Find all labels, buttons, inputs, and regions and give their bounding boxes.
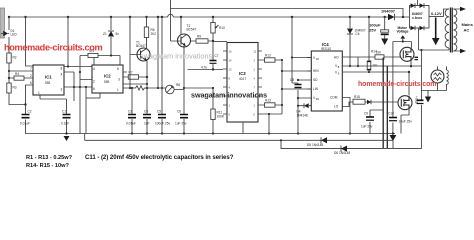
svg-text:0.1uF: 0.1uF (61, 122, 69, 126)
bridge rectifier box (410, 0, 430, 50)
wire bridge to transformer (429, 16, 444, 18)
svg-text:C6: C6 (177, 110, 181, 114)
resistor R12 (262, 53, 283, 62)
svg-text:6: 6 (93, 87, 95, 91)
load motor circle (431, 66, 444, 90)
svg-text:1N4148: 1N4148 (297, 114, 308, 118)
transformer (444, 7, 474, 53)
svg-text:4.7u: 4.7u (201, 66, 207, 70)
capacitor C7 (201, 41, 219, 71)
capacitor C10 (388, 110, 412, 135)
wire IC3 bottom to bus (243, 114, 282, 134)
svg-text:Z1: Z1 (103, 32, 107, 36)
svg-text:10c: 10c (372, 64, 378, 68)
svg-text:2: 2 (93, 80, 95, 84)
svg-text:R15: R15 (354, 95, 360, 99)
node dots on rail A (8, 16, 404, 18)
IC2 555 (92, 61, 147, 98)
resistor R3 (7, 83, 17, 93)
svg-text:R12: R12 (265, 53, 271, 57)
svg-text:swagatam innovations: swagatam innovations (140, 52, 213, 61)
svg-text:C10: C10 (388, 112, 394, 116)
svg-text:+C11: +C11 (415, 96, 419, 104)
svg-text:C4: C4 (144, 110, 148, 114)
svg-text:10uF 25v: 10uF 25v (399, 120, 413, 124)
wire dc bottom link (419, 50, 449, 66)
svg-text:0.01uF: 0.01uF (126, 122, 136, 126)
svg-text:R8: R8 (176, 83, 180, 87)
svg-text:8: 8 (117, 67, 119, 71)
capacitor C4 (143, 110, 151, 134)
resistor zigzag R (123, 86, 163, 90)
wire pin line y70.5 to IC3 (188, 69, 224, 71)
wire LO line gate R15 (347, 95, 399, 107)
resistor R13 (262, 98, 283, 107)
wire HO line (347, 50, 401, 60)
svg-text:homemade-circuits.com: homemade-circuits.com (4, 43, 103, 53)
svg-text:IR2110: IR2110 (321, 47, 331, 51)
svg-text:1N4007: 1N4007 (381, 9, 396, 14)
svg-text:-Ck: -Ck (355, 32, 360, 36)
capacitor C8 (290, 78, 302, 134)
svg-text:C8: C8 (290, 78, 294, 82)
dc arrow from 0-12V wire (432, 18, 440, 46)
wire x161 from rail (158, 17, 162, 114)
svg-text:LO: LO (334, 105, 339, 109)
svg-text:100uF 25v: 100uF 25v (155, 122, 170, 126)
svg-text:C1: C1 (62, 110, 66, 114)
IC4 IR2110 (307, 42, 347, 111)
wire Q1 source down (410, 61, 412, 66)
svg-text:R3: R3 (13, 86, 17, 90)
resistor R9 (191, 34, 214, 43)
wire Q2 source to bus (401, 109, 409, 133)
trimmer preset (162, 83, 184, 94)
diode on rail 1N4007 (381, 9, 396, 21)
svg-text:R9: R9 (197, 34, 201, 38)
capacitor C6 (175, 110, 188, 134)
svg-text:1: 1 (117, 88, 119, 92)
capacitor C1 (61, 99, 71, 134)
zener Z1 (103, 17, 119, 56)
svg-text:C11 - (2) 20mf 450v electrolyt: C11 - (2) 20mf 450v electrolytic capacit… (85, 154, 234, 161)
svg-text:5v: 5v (116, 32, 120, 36)
ground arrow right (389, 134, 396, 142)
wire mesh between IC1 and IC2 (64, 67, 92, 134)
wire vcc drop x292 (292, 17, 311, 83)
resistor R4 (9, 72, 29, 80)
svg-text:4017: 4017 (239, 77, 246, 81)
left edge terminal bar (0, 8, 5, 38)
wire COM down (347, 98, 351, 134)
svg-text:SD: SD (313, 78, 318, 82)
resistor R6 (144, 17, 156, 49)
svg-text:CC: CC (316, 59, 320, 61)
svg-text:25V: 25V (369, 28, 376, 33)
svg-text:2: 2 (30, 74, 32, 78)
wire T1 emitter down (146, 61, 148, 114)
svg-text:R14: R14 (371, 50, 377, 54)
wire rail B upper (171, 9, 404, 18)
svg-text:R14- R15 - 10w?: R14- R15 - 10w? (26, 163, 69, 169)
wire vertical from image top through hop (170, 0, 172, 41)
bridge diodes bottom (411, 26, 425, 31)
wire bottom bus A (26, 133, 396, 134)
svg-text:6: 6 (30, 81, 32, 85)
svg-text:COM: COM (330, 96, 338, 100)
resistor R11 (211, 109, 225, 134)
svg-text:SS: SS (316, 99, 320, 101)
wire T2 emitter down (183, 46, 185, 114)
svg-text:AC: AC (464, 28, 470, 33)
resistor R5 475 (79, 49, 120, 133)
node dot junction x9 y78 (8, 77, 10, 79)
wire IC1 pin7 to left rail (9, 70, 29, 72)
MOSFET Q1 (400, 47, 414, 61)
capacitor C9 (361, 110, 383, 134)
transistor T2 (171, 24, 197, 48)
wire top rail A (9, 16, 410, 18)
svg-text:R7: R7 (129, 70, 133, 74)
capacitor C11 (417, 100, 424, 103)
bridge diodes top (411, 3, 425, 8)
svg-text:100K: 100K (217, 114, 225, 118)
Q1 gate cap mark (415, 57, 419, 59)
IC1 555 (29, 65, 64, 99)
svg-text:C9: C9 (364, 112, 368, 116)
svg-text:7: 7 (30, 67, 32, 71)
wire IC3 pin16 vcc up (213, 41, 227, 43)
wire IC1 pin6 via x25 vertical (26, 85, 30, 105)
svg-text:D6 1N4148: D6 1N4148 (334, 151, 350, 155)
wire VS line to Q2 drain (347, 72, 410, 95)
resistor R7 (127, 70, 148, 85)
svg-text:IC2: IC2 (104, 74, 111, 79)
svg-text:IC1: IC1 (45, 75, 52, 80)
MOSFET Q2 (398, 96, 412, 110)
svg-text:homemade-circuits.com: homemade-circuits.com (358, 81, 436, 88)
capacitor C3 (126, 87, 136, 134)
svg-text:0.01uF: 0.01uF (20, 122, 30, 126)
svg-text:HIN: HIN (313, 69, 319, 73)
svg-text:x 4nos: x 4nos (412, 16, 422, 20)
svg-text:1uF 25v: 1uF 25v (175, 122, 187, 126)
svg-text:LIN: LIN (313, 87, 319, 91)
svg-text:IC3: IC3 (239, 71, 246, 76)
wire hop on rail A (168, 14, 174, 17)
svg-text:8: 8 (61, 67, 63, 71)
svg-text:R10: R10 (219, 26, 225, 30)
load coil (447, 70, 449, 84)
diode D4 (297, 103, 309, 117)
svg-text:Mains: Mains (462, 22, 474, 27)
svg-text:R4: R4 (15, 72, 19, 76)
wire SD to gnd (298, 80, 307, 98)
svg-text:R2: R2 (13, 56, 17, 60)
load loop (421, 66, 446, 148)
wire T2 collector (180, 17, 182, 35)
svg-text:HO: HO (334, 55, 339, 59)
svg-text:1uF: 1uF (144, 122, 150, 126)
transistor T1 (130, 41, 150, 62)
diode D4 (307, 137, 327, 147)
svg-text:1: 1 (38, 91, 40, 95)
IC3 4017 (223, 43, 262, 123)
svg-text:C2: C2 (28, 110, 32, 114)
svg-text:555: 555 (45, 81, 51, 85)
thick pair verticals (383, 58, 387, 149)
wire vcc drop to IC1 pin4 (26, 17, 30, 66)
wire line2 (281, 140, 421, 148)
resistor R2 (7, 53, 17, 63)
svg-text:3: 3 (118, 78, 120, 82)
svg-text:BC547: BC547 (187, 28, 197, 32)
svg-text:0-12V: 0-12V (431, 11, 442, 16)
motor voltage node (393, 26, 412, 110)
svg-text:4: 4 (61, 73, 63, 77)
wire y88 continues to R11 (184, 88, 213, 109)
svg-text:2K2: 2K2 (151, 32, 157, 36)
svg-text:C3: C3 (128, 110, 132, 114)
wire x282 vertical (282, 60, 311, 114)
gate resistor vertical 10E (367, 17, 378, 73)
capacitor 100uF 25V (369, 17, 389, 45)
capacitor C5 (155, 110, 170, 134)
svg-text:BC547: BC547 (136, 44, 146, 48)
svg-text:3: 3 (61, 88, 63, 92)
ground arrow left (64, 132, 70, 141)
wire T1 base from x130 (129, 17, 131, 88)
svg-text:1uF 25v: 1uF 25v (361, 125, 373, 129)
wire IC1 gnd bottom (40, 98, 67, 100)
svg-text:4: 4 (93, 67, 95, 71)
wire VB line (347, 65, 422, 67)
bootstrap diode 1N4007 (347, 17, 366, 67)
svg-text:LED: LED (11, 33, 18, 37)
capacitor C2 (20, 105, 32, 133)
bridge taps (418, 0, 419, 50)
wire IC2 bottom to bus (86, 97, 100, 99)
svg-text:555: 555 (104, 80, 110, 84)
node dots bus A (131, 132, 351, 134)
wire bus B (85, 134, 393, 149)
LED D1 (1, 29, 17, 37)
diode D5 (334, 146, 350, 156)
wire left vertical x9 (9, 17, 26, 105)
preset R10 (211, 17, 225, 42)
svg-text:D5 1N4148: D5 1N4148 (307, 143, 323, 147)
svg-text:swagatam innovations: swagatam innovations (191, 91, 267, 100)
svg-text:C5: C5 (157, 110, 161, 114)
svg-text:C7: C7 (215, 54, 219, 58)
wire vcc drop to IC1 pin8 (67, 17, 69, 67)
svg-text:Voltage: Voltage (397, 29, 409, 33)
svg-text:R1 - R13 - 0.25w?: R1 - R13 - 0.25w? (26, 155, 73, 161)
